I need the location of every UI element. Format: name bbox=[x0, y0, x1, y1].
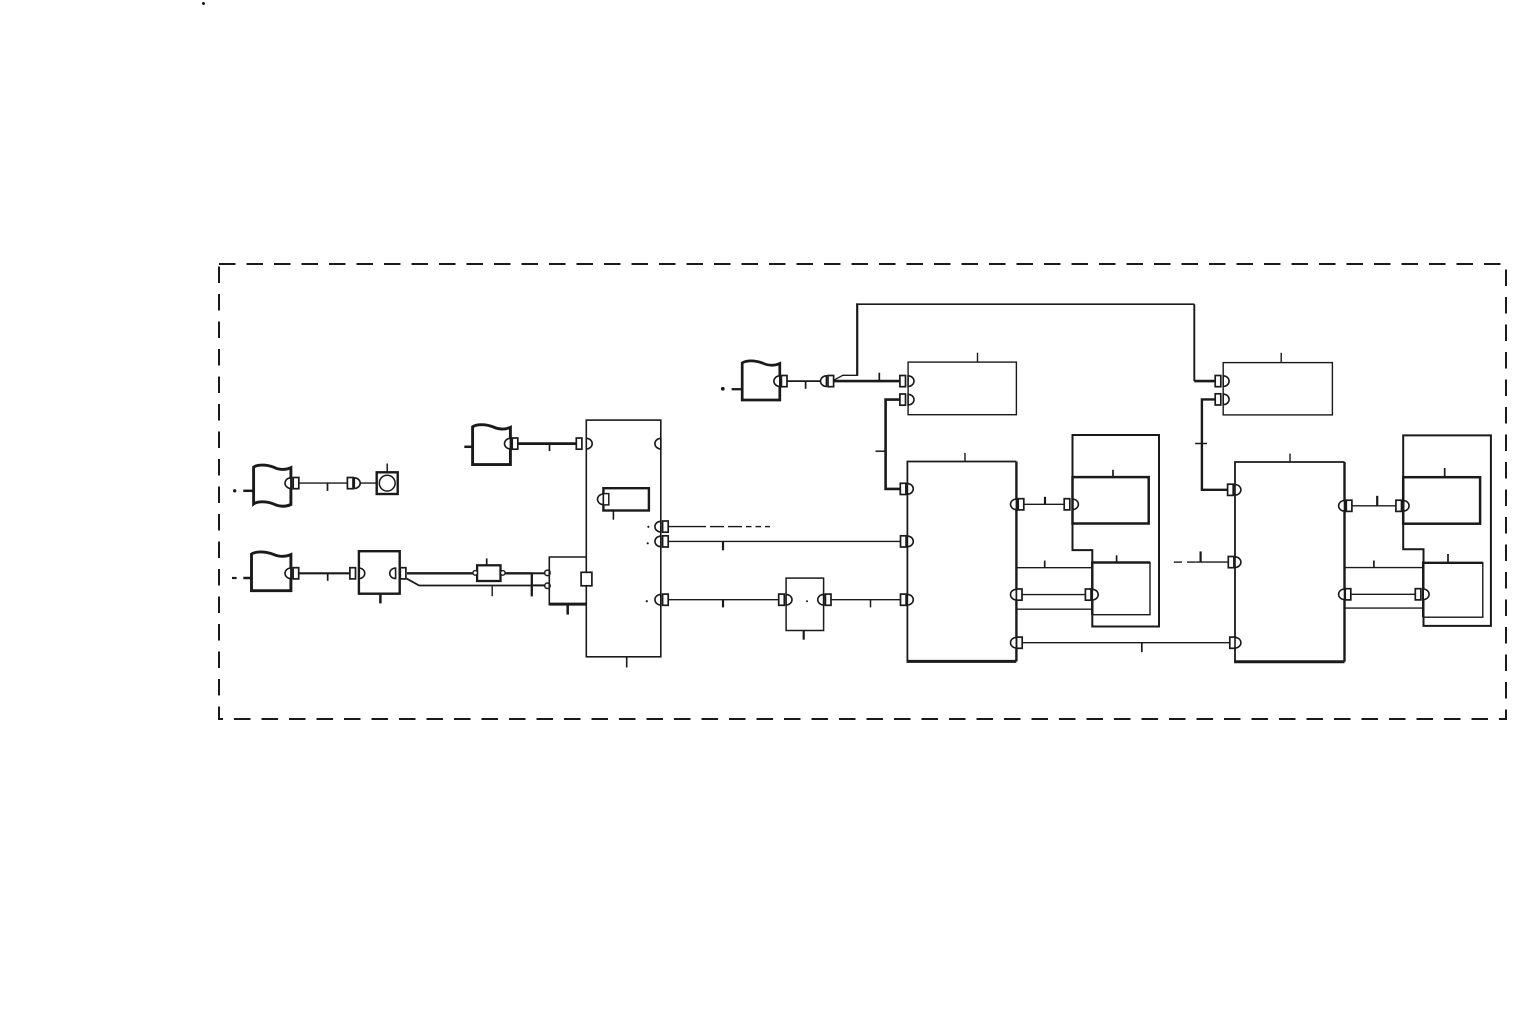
upper block U2 bbox=[1223, 363, 1332, 415]
U2 top tick bbox=[1280, 353, 1282, 363]
tick on G1R1 wire bbox=[1044, 497, 1046, 505]
long wire T to G1 port B bbox=[668, 540, 900, 542]
inner bottom block IB1 bbox=[1092, 563, 1150, 615]
tick on wire SB-G1 bbox=[870, 600, 872, 608]
IT2 input port bbox=[1396, 500, 1402, 511]
S3 input stub wire bbox=[464, 446, 472, 449]
wire S2 to block B2 bbox=[299, 572, 350, 574]
tall block T outline bbox=[586, 420, 661, 657]
IB1 input port bbox=[1085, 589, 1091, 600]
G1 right port R2 bbox=[1011, 589, 1017, 600]
tick on branch wire bbox=[491, 586, 493, 596]
U1 top tick bbox=[977, 353, 979, 362]
wire route to U2 port1 bbox=[1194, 380, 1215, 383]
S4 output port bbox=[774, 376, 780, 387]
inner top block IT1 bbox=[1073, 477, 1149, 523]
branch riser diagonal bbox=[834, 375, 858, 380]
B2 output port bbox=[390, 568, 396, 579]
wire T port3 to SB bbox=[668, 599, 779, 601]
B3/T shared edge port square bbox=[581, 572, 592, 586]
wire connector to rotary block bbox=[360, 482, 377, 484]
junction bar bbox=[531, 572, 533, 596]
T right port 2 bbox=[655, 536, 661, 547]
wire G2R1 to IT2 bbox=[1352, 505, 1396, 507]
SB output port bbox=[818, 594, 824, 605]
G1 left port A bbox=[900, 483, 906, 494]
big block G1 bbox=[907, 462, 1016, 662]
diagonal branch wire from B2 bbox=[407, 579, 531, 586]
channel line upper G1-IB1 bbox=[1016, 567, 1092, 569]
tick on wire S3 bbox=[549, 444, 551, 452]
T bottom stub bbox=[626, 657, 628, 668]
IR left port bbox=[598, 494, 604, 505]
inner bottom block IB2 bbox=[1423, 563, 1483, 617]
S2 input dash bbox=[232, 577, 237, 579]
rotary element block (square with circle) bbox=[377, 472, 398, 494]
U1 port 1 bbox=[900, 376, 906, 387]
wire G1R1 to IT1 bbox=[1024, 503, 1064, 505]
B2 input port bbox=[350, 568, 356, 579]
T input port bbox=[576, 438, 582, 449]
branch riser vertical bbox=[856, 303, 858, 376]
junction to B3 wires bbox=[533, 572, 545, 574]
source file icon S1 bbox=[254, 465, 291, 506]
G2 left port C bbox=[1230, 637, 1236, 648]
subsystem2 outer shell P2 bbox=[1403, 435, 1491, 626]
SB input port bbox=[779, 594, 785, 605]
B2 bottom stub bbox=[379, 594, 382, 604]
tick on long wire bbox=[722, 541, 724, 550]
channel line lower G1-IB1 bbox=[1016, 608, 1092, 610]
dangling dashed wire D1 bbox=[668, 526, 706, 528]
B3 left node circles bbox=[545, 570, 551, 576]
IB1 top tick bbox=[1116, 555, 1118, 562]
block B3 bbox=[549, 557, 586, 605]
inner top block IT2 bbox=[1403, 477, 1480, 524]
stray dot top-left bbox=[202, 2, 205, 5]
tick on channel line bbox=[1044, 561, 1046, 568]
G1 right port R1 bbox=[1011, 499, 1017, 510]
valve top tick bbox=[486, 558, 488, 564]
thick wire junction to U1 bbox=[834, 380, 900, 383]
upper block U1 bbox=[908, 362, 1016, 415]
T top-right inner port bbox=[655, 438, 661, 449]
G2 left port A bbox=[1228, 484, 1234, 495]
G2 right port R1 bbox=[1339, 501, 1345, 512]
tick on wire S2 bbox=[327, 573, 329, 581]
B3 bottom stub bbox=[566, 605, 569, 614]
G1 left port B bbox=[901, 536, 907, 547]
source file icon S4 bbox=[742, 361, 780, 400]
SB bottom stub bbox=[803, 631, 805, 640]
valve element bbox=[477, 565, 500, 581]
wire G1R2 to IB1 bbox=[1022, 594, 1085, 596]
tick on U2 down wire bbox=[1195, 443, 1207, 445]
wire S1 to connector bbox=[299, 482, 348, 484]
tick on G2R1 wire bbox=[1376, 496, 1378, 506]
G2 left port B bbox=[1228, 557, 1234, 568]
S4 input stub wire bbox=[732, 388, 743, 390]
wire G2R2 to IB2 bbox=[1351, 593, 1416, 595]
tick on wire S1 bbox=[327, 483, 329, 491]
channel line upper G2-IB2 bbox=[1345, 567, 1424, 569]
source file icon S3 bbox=[473, 425, 511, 465]
wire U2 port2 down to G2 port A bbox=[1202, 399, 1228, 489]
S3 output port bbox=[505, 438, 511, 449]
wire valve to junction bbox=[505, 572, 531, 574]
long wire G1R3 to G2 port C bbox=[1022, 642, 1230, 644]
rotary block top stub bbox=[386, 464, 388, 473]
IT2 top tick bbox=[1444, 468, 1446, 477]
IR bottom stub bbox=[612, 511, 614, 520]
junction port pair bbox=[821, 376, 827, 387]
S2 output port bbox=[285, 568, 291, 579]
T right port 3 bbox=[655, 594, 661, 605]
G1 left port C bbox=[901, 594, 907, 605]
S1 input dot bbox=[233, 489, 236, 492]
tick on long bottom wire bbox=[1141, 643, 1143, 653]
U1 port 2 bbox=[900, 394, 906, 405]
tick on down wire bbox=[876, 450, 886, 452]
S1 output port bbox=[285, 478, 291, 489]
top route down vertical bbox=[1193, 304, 1195, 381]
IT1 top tick bbox=[1112, 470, 1114, 477]
tick on D2 bbox=[1199, 551, 1201, 562]
transfer block B2 bbox=[359, 551, 400, 594]
S1 input stub wire bbox=[243, 490, 253, 493]
small block SB bbox=[786, 578, 824, 630]
tick on junction-U1 wire bbox=[878, 373, 880, 380]
connector port pair row1 bbox=[347, 478, 353, 489]
subsystem1 outer shell P1 bbox=[1073, 435, 1160, 627]
IB2 input port bbox=[1415, 589, 1421, 600]
wire SB to G1 port C bbox=[831, 599, 901, 601]
U2 port 2 bbox=[1215, 394, 1221, 405]
tick on S4 wire bbox=[805, 382, 807, 389]
G2 top tick bbox=[1289, 454, 1291, 462]
G1 right port R3 bbox=[1011, 637, 1017, 648]
tick on channel line 2 bbox=[1373, 561, 1375, 568]
wire B2 to valve bbox=[407, 572, 473, 574]
inner block IR inside T bbox=[603, 488, 649, 510]
wire S4 to junction pair bbox=[787, 380, 821, 382]
tick on wire T-SB bbox=[722, 600, 724, 608]
dangling dashed wire D2 bbox=[1174, 561, 1182, 563]
wire U1 port2 down to G1 port A bbox=[886, 400, 901, 489]
dashed boundary frame bbox=[219, 264, 1506, 719]
top route horizontal wire bbox=[856, 303, 1194, 305]
G1 top tick bbox=[964, 453, 966, 462]
U2 port 1 bbox=[1215, 376, 1221, 387]
T right port 1 (dashed out) bbox=[655, 521, 661, 532]
G2 right port R2 bbox=[1339, 589, 1345, 600]
IB2 top tick bbox=[1447, 554, 1449, 563]
source file icon S2 bbox=[252, 552, 291, 591]
channel line lower G2-IB2 bbox=[1345, 607, 1424, 609]
S4 input dot bbox=[721, 387, 725, 391]
wire S3 to T bbox=[518, 442, 577, 445]
S2 input stub wire bbox=[243, 577, 251, 580]
IT1 input port bbox=[1064, 499, 1070, 510]
big block G2 bbox=[1235, 462, 1345, 662]
